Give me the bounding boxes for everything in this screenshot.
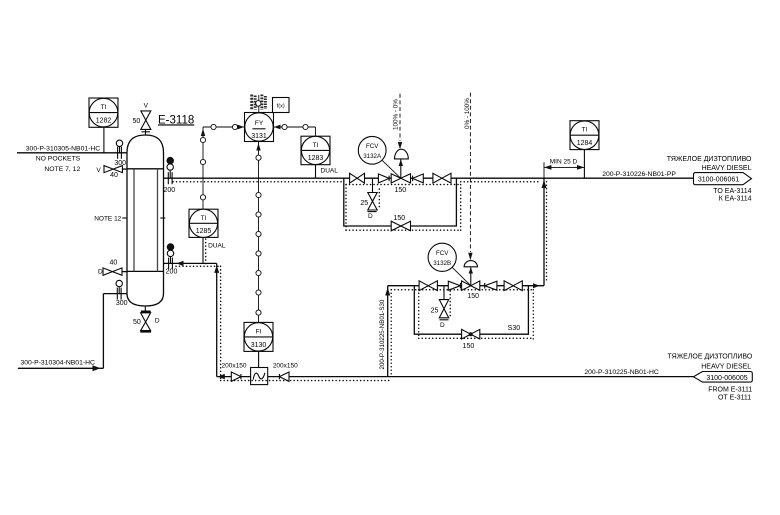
valve bypass lower 150 xyxy=(462,329,480,339)
svg-text:200-P-310225-NB01-HC: 200-P-310225-NB01-HC xyxy=(584,369,659,376)
svg-text:ТЯЖЕЛОЕ ДИЗТОПЛИВО: ТЯЖЕЛОЕ ДИЗТОПЛИВО xyxy=(667,156,752,163)
svg-text:MIN 25 D: MIN 25 D xyxy=(550,159,578,166)
svg-text:200: 200 xyxy=(166,269,178,276)
svg-text:TI: TI xyxy=(201,215,207,222)
svg-text:1285: 1285 xyxy=(196,228,212,235)
tracing dotted lines xyxy=(173,182,547,381)
valve 50 D bottom xyxy=(140,306,151,332)
svg-text:1283: 1283 xyxy=(308,155,324,162)
node 300 bottom flange bars xyxy=(116,288,118,300)
svg-text:3100-006061: 3100-006061 xyxy=(698,177,739,184)
valve 40 D left bottom xyxy=(103,268,127,275)
svg-text:150: 150 xyxy=(394,187,406,194)
svg-text:D: D xyxy=(368,213,373,220)
svg-text:TI: TI xyxy=(101,104,107,111)
vessel bottom tubesheet xyxy=(127,270,164,272)
wire bypass upper xyxy=(344,178,457,226)
svg-text:D: D xyxy=(155,317,160,324)
svg-text:300: 300 xyxy=(116,300,128,307)
svg-text:ТЯЖЕЛОЕ ДИЗТОПЛИВО: ТЯЖЕЛОЕ ДИЗТОПЛИВО xyxy=(668,353,753,360)
dimension MIN 25 D xyxy=(544,162,584,178)
wire riser to lower nozzle xyxy=(216,263,218,376)
instrument TI1284 xyxy=(570,121,599,179)
reducer upper right xyxy=(413,174,424,183)
valve gate manifold A left xyxy=(350,173,365,183)
svg-text:3132A: 3132A xyxy=(363,153,382,160)
vessel right wall tick xyxy=(160,217,165,219)
svg-text:HEAVY DIESEL: HEAVY DIESEL xyxy=(701,363,751,370)
svg-text:0% - 100%: 0% - 100% xyxy=(464,98,471,129)
connector in 3100-006005 xyxy=(694,372,753,383)
node 300 top flange bars xyxy=(117,147,119,159)
vessel inner tube left xyxy=(133,169,135,272)
svg-text:200x150: 200x150 xyxy=(273,362,298,369)
node 300 top vent xyxy=(119,147,121,153)
signal dashed to FCV3132B xyxy=(469,93,471,252)
instrument FY3131 xyxy=(245,95,274,142)
svg-text:300: 300 xyxy=(114,160,126,167)
instrument TI1283 xyxy=(301,136,330,178)
signal link TI1285 to FY3131 xyxy=(200,124,244,209)
wire riser to upper line xyxy=(543,178,545,286)
svg-text:DUAL: DUAL xyxy=(208,243,226,250)
pipe lower manifold main xyxy=(388,285,544,287)
vessel top tubesheet xyxy=(127,168,164,170)
function box f(x) xyxy=(273,98,290,113)
pipe bottom 200 line xyxy=(217,376,694,378)
signal dashed to FCV3132A xyxy=(399,94,401,141)
svg-text:ОТ E-3111: ОТ E-3111 xyxy=(718,394,751,401)
svg-text:HEAVY DIESEL: HEAVY DIESEL xyxy=(702,165,752,172)
svg-text:40: 40 xyxy=(110,260,118,267)
instrument TI1282 stem xyxy=(103,127,105,153)
svg-text:150: 150 xyxy=(467,293,479,300)
svg-text:150: 150 xyxy=(393,215,405,222)
svg-text:50: 50 xyxy=(133,118,141,125)
valve drain 25 upper xyxy=(368,178,378,211)
valve FCV3132A control valve xyxy=(391,149,410,183)
valve drain 25 lower xyxy=(439,286,448,320)
svg-text:D: D xyxy=(98,268,103,275)
vessel E-3118 shell xyxy=(127,135,164,306)
svg-text:200x150: 200x150 xyxy=(222,362,247,369)
flow element orifice box xyxy=(251,368,268,385)
node 200 upper flange bars xyxy=(167,172,169,184)
svg-text:D: D xyxy=(440,322,445,329)
reducer flow element right xyxy=(279,372,289,381)
wire riser lower manifold feed xyxy=(387,286,389,377)
svg-text:3100-006005: 3100-006005 xyxy=(706,375,747,382)
connector out 3100-006061 xyxy=(694,173,752,185)
signal link TI1283 to FY3131 xyxy=(274,124,316,136)
vessel inner tube right xyxy=(157,169,159,272)
svg-text:FROM E-3111: FROM E-3111 xyxy=(708,386,752,393)
valve bypass upper 150 xyxy=(391,221,410,231)
valve gate manifold B right xyxy=(504,281,522,291)
valve 50 V top xyxy=(141,111,151,135)
valve FCV3132B control valve xyxy=(462,261,480,291)
svg-text:V: V xyxy=(144,103,149,110)
svg-text:E-3118: E-3118 xyxy=(158,114,194,126)
svg-text:300-P-310304-NB01-HC: 300-P-310304-NB01-HC xyxy=(21,360,96,367)
signal link FY3131 to FI3130 xyxy=(256,142,261,323)
svg-text:25: 25 xyxy=(360,200,368,207)
note 12 leader xyxy=(122,217,127,219)
svg-text:К EA-3114: К EA-3114 xyxy=(719,196,752,203)
instrument FI3130 xyxy=(244,322,273,367)
svg-text:150: 150 xyxy=(463,343,475,350)
svg-text:TO EA-3114: TO EA-3114 xyxy=(713,188,751,195)
svg-text:FY: FY xyxy=(255,120,264,127)
reducer lower left xyxy=(448,281,460,290)
instrument TI1282 xyxy=(89,98,118,127)
reducer lower right xyxy=(485,281,497,290)
svg-text:3131: 3131 xyxy=(251,133,267,140)
pipe lower vessel nozzle 200 xyxy=(164,262,217,264)
instrument FCV3132A balloon xyxy=(358,136,400,178)
reducer flow element left xyxy=(231,372,241,381)
svg-text:NOTE 7, 12: NOTE 7, 12 xyxy=(44,166,80,173)
svg-text:25: 25 xyxy=(431,308,439,315)
svg-text:3130: 3130 xyxy=(251,342,267,349)
svg-text:TI: TI xyxy=(582,127,588,134)
svg-text:NO POCKETS: NO POCKETS xyxy=(36,155,81,162)
instrument FCV3132B balloon xyxy=(428,243,471,286)
wire bypass lower S30 xyxy=(414,286,528,335)
svg-text:V: V xyxy=(96,167,101,174)
valve gate manifold B left xyxy=(419,281,437,291)
svg-text:40: 40 xyxy=(110,172,118,179)
svg-text:TI: TI xyxy=(313,142,319,149)
svg-text:S30: S30 xyxy=(508,325,521,332)
valve 40 V left top xyxy=(104,166,127,173)
svg-text:1282: 1282 xyxy=(96,118,112,125)
svg-text:50: 50 xyxy=(133,319,141,326)
svg-text:NOTE 12: NOTE 12 xyxy=(94,216,121,223)
wire pipe 300-P-310304 xyxy=(18,367,104,369)
tiny rotated notes above FY xyxy=(252,95,266,111)
svg-text:1284: 1284 xyxy=(577,140,593,147)
svg-text:f(x): f(x) xyxy=(277,104,285,110)
svg-text:200-P-310226-NB01-PP: 200-P-310226-NB01-PP xyxy=(602,171,676,178)
svg-text:3132B: 3132B xyxy=(433,260,451,267)
wire pipe 300-P-310305 inlet xyxy=(17,152,128,154)
vent upper nozzle xyxy=(169,170,171,178)
svg-text:DUAL: DUAL xyxy=(321,168,339,175)
valve gate manifold A right xyxy=(433,173,451,183)
wire 300 bottom branch xyxy=(103,293,127,295)
pipe main upper 200 line xyxy=(164,177,694,179)
svg-text:300-P-310305-NB01-HC: 300-P-310305-NB01-HC xyxy=(26,145,101,152)
reducer upper left xyxy=(378,174,389,183)
svg-text:200: 200 xyxy=(163,187,175,194)
svg-text:FCV: FCV xyxy=(366,143,379,150)
svg-text:200-P-310225-NB01-S30: 200-P-310225-NB01-S30 xyxy=(379,299,386,369)
svg-text:FI: FI xyxy=(256,329,262,336)
svg-text:FCV: FCV xyxy=(436,250,449,257)
instrument TI1285 xyxy=(189,209,218,263)
svg-text:100% - 0%: 100% - 0% xyxy=(393,99,400,130)
